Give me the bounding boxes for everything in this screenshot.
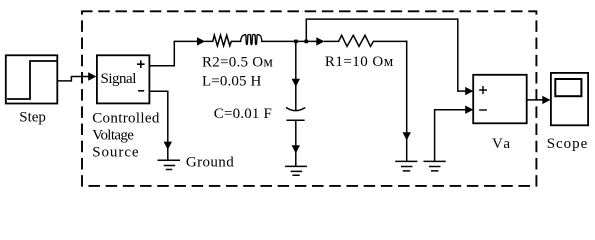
arrowhead into Signal input xyxy=(88,72,96,80)
arrowhead into ground G2 xyxy=(292,145,300,153)
svg-text:L=0.05 H: L=0.05 H xyxy=(202,74,262,90)
svg-text:R2=0.5 Ом: R2=0.5 Ом xyxy=(202,54,273,70)
ground G2 xyxy=(286,152,307,175)
svg-text:Source: Source xyxy=(92,144,139,160)
scope screen xyxy=(555,79,581,96)
step icon waveform xyxy=(8,61,56,99)
ground G4 xyxy=(424,161,445,171)
wire inductor to node A xyxy=(262,40,316,42)
resistor R1 xyxy=(325,35,407,46)
wire node B up and across to Va plus xyxy=(306,19,466,91)
arrowhead into Scope input xyxy=(542,96,550,104)
svg-text:Controlled: Controlled xyxy=(92,111,160,127)
arrowhead into Va plus input xyxy=(465,87,473,95)
arrowhead into Va minus input xyxy=(465,106,473,114)
svg-text:Ground: Ground xyxy=(186,155,234,171)
arrowhead into RL branch xyxy=(197,37,205,45)
svg-text:Signal: Signal xyxy=(101,71,137,87)
plus mark on source xyxy=(138,61,144,67)
wire ground G4 to Va minus xyxy=(435,110,467,162)
wire capacitor to ground G2 xyxy=(295,120,297,151)
voltage measurement block Va xyxy=(473,75,527,124)
svg-text:R1=10 Ом: R1=10 Ом xyxy=(325,54,394,70)
resistor R2 xyxy=(205,35,240,46)
wire node A down to capacitor branch xyxy=(295,41,297,85)
junction node A xyxy=(294,40,298,44)
arrowhead into ground G3 xyxy=(403,132,411,140)
ground G1 xyxy=(158,148,179,170)
wire R1 down to ground G3 xyxy=(406,41,408,138)
ground G3 xyxy=(396,139,417,171)
wire source minus to ground xyxy=(149,91,167,143)
svg-text:Step: Step xyxy=(19,110,46,126)
wire source plus to RL branch xyxy=(149,41,198,65)
svg-text:C=0.01 F: C=0.01 F xyxy=(214,106,272,122)
svg-text:Scope: Scope xyxy=(547,136,588,152)
capacitor C curved plate xyxy=(287,85,305,111)
controlled voltage source block U1 xyxy=(97,55,149,103)
arrowhead into R1 branch xyxy=(316,37,324,45)
svg-text:Va: Va xyxy=(492,136,510,152)
scope block xyxy=(551,73,588,125)
wire Step to Signal xyxy=(57,77,89,81)
plus mark on Va xyxy=(480,87,486,94)
dashed subsystem border xyxy=(82,11,536,186)
minus mark on Va xyxy=(480,109,486,111)
junction node B xyxy=(305,40,309,44)
inductor L xyxy=(241,34,262,44)
wire Va output to Scope xyxy=(527,99,544,101)
svg-text:Voltage: Voltage xyxy=(92,128,134,144)
step source block Step xyxy=(6,55,58,103)
capacitor C flat plate xyxy=(287,119,304,121)
minus mark on source xyxy=(139,90,144,92)
arrowhead into ground G1 xyxy=(164,142,172,150)
arrowhead into C branch xyxy=(292,79,300,87)
